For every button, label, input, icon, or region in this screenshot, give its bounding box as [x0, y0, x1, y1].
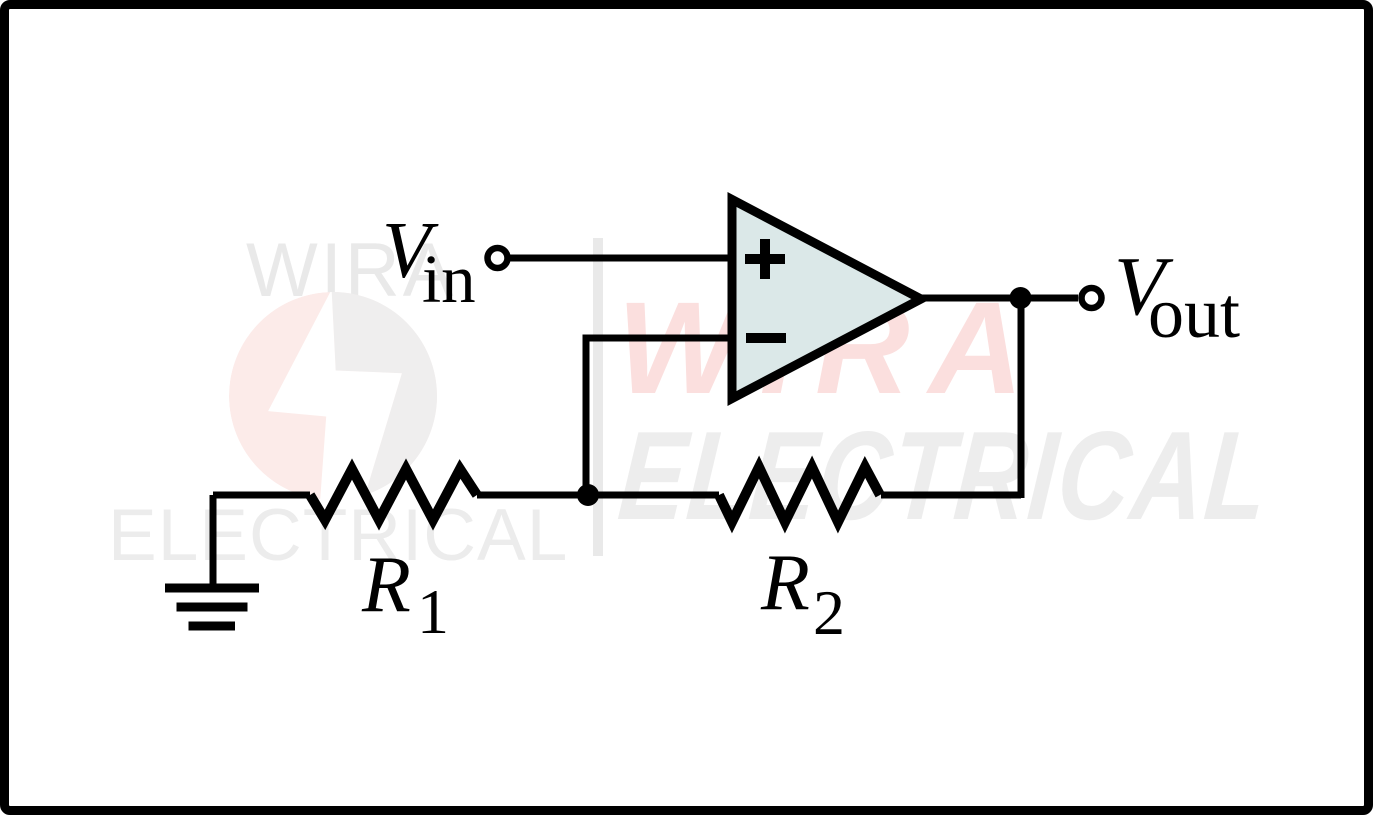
watermark: red WIRA center	[617, 282, 1042, 413]
watermark: vertical bar separator	[593, 238, 603, 556]
watermark logo: pink half-disc	[229, 292, 437, 500]
watermark logo: white lightning bolt	[268, 290, 402, 506]
watermark: gray WIRA top-left	[246, 227, 456, 314]
ground	[165, 588, 259, 626]
wire R1 to node A to R2	[477, 492, 719, 499]
node A junction dot	[577, 484, 599, 506]
resistor R2	[719, 467, 880, 522]
output junction dot	[1010, 287, 1032, 309]
wire Vin to op-amp + input	[510, 255, 733, 262]
label Vin	[382, 207, 476, 317]
terminal Vin	[488, 248, 508, 268]
wire ground to R1	[213, 492, 310, 499]
plus symbol	[745, 239, 785, 279]
wire ground riser	[210, 495, 217, 584]
op-amp U1	[732, 200, 921, 399]
resistor R1	[310, 469, 477, 520]
watermark: big gray ELECTRICAL center	[614, 413, 1273, 539]
watermark logo: gray half-disc	[332, 280, 460, 510]
minus symbol	[746, 333, 786, 343]
wire feedback vertical	[1018, 298, 1025, 498]
label Vout	[1114, 240, 1240, 353]
label R2	[760, 539, 845, 648]
watermark: gray ELECTRICAL bottom-left	[108, 494, 568, 577]
wire op-amp output	[916, 295, 1078, 302]
wire R2 to feedback corner	[881, 492, 1021, 499]
label R1	[361, 541, 449, 647]
wire inverting input from node A	[586, 338, 733, 492]
terminal Vout	[1082, 288, 1102, 308]
